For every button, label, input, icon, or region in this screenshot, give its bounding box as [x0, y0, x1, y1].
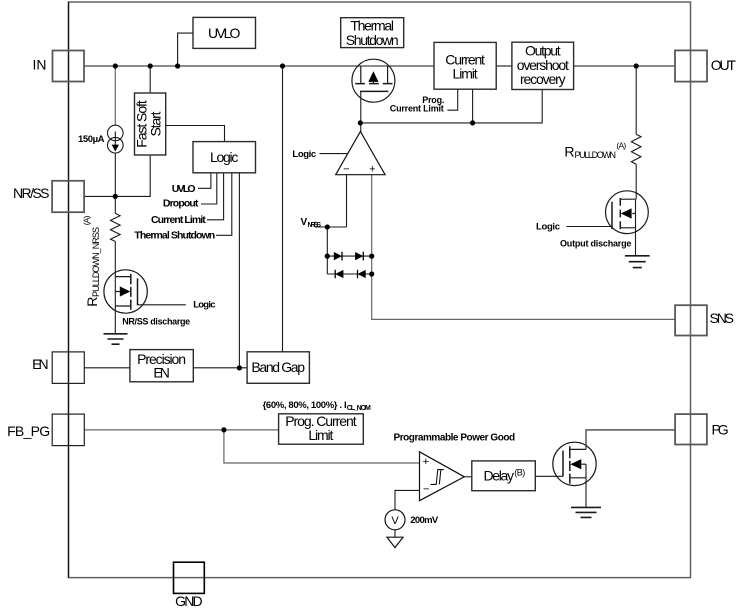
- svg-text:EN: EN: [153, 365, 170, 381]
- svg-text:CL_NOM: CL_NOM: [347, 405, 371, 412]
- svg-text:Band Gap: Band Gap: [251, 359, 305, 375]
- svg-text:GND: GND: [175, 593, 203, 609]
- svg-text:Programmable Power Good: Programmable Power Good: [394, 433, 516, 444]
- svg-text:Thermal Shutdown: Thermal Shutdown: [134, 229, 215, 241]
- svg-text:Shutdown: Shutdown: [346, 32, 399, 48]
- svg-text:EN: EN: [32, 356, 49, 372]
- svg-text:+: +: [369, 163, 375, 175]
- svg-text:Delay: Delay: [484, 467, 515, 483]
- svg-text:PULLDOWN: PULLDOWN: [575, 150, 617, 160]
- svg-text:Logic: Logic: [292, 149, 316, 160]
- svg-text:Dropout: Dropout: [163, 198, 199, 210]
- svg-text:Thermal: Thermal: [350, 18, 394, 34]
- svg-text:SNS: SNS: [710, 310, 735, 326]
- svg-text:(A): (A): [616, 141, 626, 151]
- svg-text:V: V: [391, 515, 399, 527]
- svg-text:Limit: Limit: [453, 66, 478, 82]
- svg-text:NR/SS: NR/SS: [13, 185, 50, 201]
- svg-text:UVLO: UVLO: [208, 25, 241, 41]
- svg-text:UVLO: UVLO: [172, 183, 196, 195]
- svg-text:Logic: Logic: [210, 149, 238, 165]
- svg-text:V: V: [301, 217, 308, 228]
- svg-text:Current Limit: Current Limit: [390, 104, 444, 114]
- svg-text:Current Limit: Current Limit: [151, 214, 206, 226]
- svg-text:(B): (B): [514, 468, 525, 478]
- svg-text:−: −: [343, 163, 349, 175]
- svg-text:FB_PG: FB_PG: [7, 423, 50, 439]
- svg-text:{60%, 80%, 100%} . I: {60%, 80%, 100%} . I: [263, 400, 347, 411]
- svg-text:Logic: Logic: [193, 299, 215, 310]
- svg-text:OUT: OUT: [711, 57, 737, 73]
- svg-text:PULLDOWN_NRSS: PULLDOWN_NRSS: [91, 227, 101, 297]
- svg-text:NR/SS: NR/SS: [308, 222, 322, 229]
- svg-text:150µA: 150µA: [78, 134, 105, 145]
- svg-text:Limit: Limit: [308, 427, 333, 443]
- svg-text:PG: PG: [712, 422, 729, 438]
- svg-text:(A): (A): [81, 215, 91, 225]
- svg-text:recovery: recovery: [520, 71, 566, 87]
- svg-text:R: R: [564, 143, 574, 159]
- svg-text:R: R: [84, 297, 100, 307]
- svg-text:+: +: [423, 456, 429, 468]
- svg-text:Logic: Logic: [536, 221, 560, 232]
- svg-text:200mV: 200mV: [410, 515, 439, 526]
- svg-text:Output discharge: Output discharge: [560, 239, 631, 249]
- svg-text:−: −: [423, 484, 429, 496]
- svg-text:IN: IN: [33, 57, 47, 73]
- svg-text:NR/SS discharge: NR/SS discharge: [122, 317, 190, 327]
